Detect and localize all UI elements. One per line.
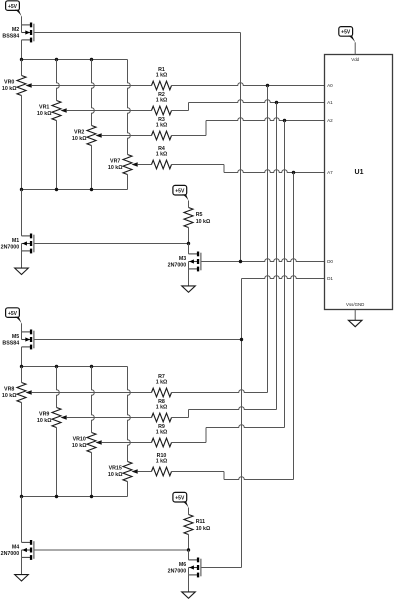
svg-text:R11: R11 bbox=[196, 519, 205, 525]
junction dot A2 bus bbox=[283, 119, 286, 122]
svg-text:10 kΩ: 10 kΩ bbox=[72, 136, 87, 142]
svg-text:+5V: +5V bbox=[341, 30, 351, 36]
ground at U1 bbox=[348, 320, 362, 326]
wire VR2 bottom lead bbox=[91, 146, 93, 190]
resistor R10 1 k bbox=[152, 453, 172, 476]
svg-text:+5V: +5V bbox=[8, 311, 18, 317]
svg-text:10 kΩ: 10 kΩ bbox=[37, 418, 52, 424]
svg-text:D1: D1 bbox=[327, 276, 333, 281]
wire R11 to M4 gate node bbox=[188, 535, 190, 551]
svg-text:VR7: VR7 bbox=[110, 159, 120, 165]
wire VR7 bottom lead bbox=[127, 175, 129, 190]
svg-text:M3: M3 bbox=[179, 256, 186, 262]
svg-text:1 kΩ: 1 kΩ bbox=[156, 123, 168, 129]
transistor M1 2N7000 (N-MOSFET) bbox=[1, 234, 34, 254]
junction dots on pot supply bus bbox=[20, 58, 93, 61]
node M4 gate junction bbox=[187, 548, 190, 551]
resistor R7 1 k bbox=[152, 374, 172, 397]
svg-text:A1: A1 bbox=[327, 100, 333, 105]
svg-text:10 kΩ: 10 kΩ bbox=[196, 219, 211, 225]
wire M1 source to ground bbox=[21, 251, 23, 268]
wire R3 step to U1 A2 bbox=[172, 135, 207, 137]
resistor R5 10 k bbox=[184, 208, 211, 228]
wire M5 gate to D1 bus bbox=[34, 339, 241, 341]
+5V power flag for M2 bbox=[6, 1, 20, 11]
wire VR8 wiper to R7 bbox=[34, 392, 152, 394]
wire D0 from M3 gate to U1 bbox=[201, 259, 324, 262]
wire VR9 top lead bbox=[57, 367, 60, 408]
wire A1 vertical bus bbox=[276, 103, 278, 410]
potentiometer VR8 10 k bbox=[2, 383, 34, 403]
wire R9 step to A2 bus bbox=[172, 442, 207, 444]
wire A7 vertical bus bbox=[293, 173, 295, 480]
ground at M1 bbox=[15, 268, 29, 274]
junction dot A7 bus bbox=[292, 171, 295, 174]
ground at M4 bbox=[15, 575, 29, 581]
junction dot A1 bus bbox=[275, 101, 278, 104]
wire VR15 bottom lead bbox=[127, 482, 129, 497]
wire M4 gate node to M6 drain bbox=[188, 550, 190, 560]
svg-text:U1: U1 bbox=[355, 169, 364, 176]
transistor M2 BSS84 (P-MOSFET) bbox=[2, 23, 33, 43]
svg-text:M5: M5 bbox=[12, 334, 19, 340]
+5V power flag for R11 bbox=[173, 492, 187, 502]
wire VR0 top lead bbox=[21, 60, 23, 76]
svg-text:A7: A7 bbox=[327, 170, 333, 175]
svg-text:VR0: VR0 bbox=[4, 80, 14, 86]
wire +5V to R11 bbox=[188, 508, 190, 515]
svg-text:A2: A2 bbox=[327, 118, 333, 123]
node M1 gate junction bbox=[187, 242, 190, 245]
wire +5V to U1 Vdd bbox=[354, 42, 356, 54]
svg-text:M6: M6 bbox=[179, 562, 186, 568]
wire M5 drain to pot bus bbox=[21, 347, 23, 367]
svg-text:10 kΩ: 10 kΩ bbox=[108, 165, 123, 171]
wire R8 step to A1 bus bbox=[172, 417, 189, 419]
svg-text:2N7000: 2N7000 bbox=[1, 245, 20, 251]
resistor R2 1 k bbox=[152, 92, 172, 115]
wire R4 step to U1 A7 bbox=[172, 164, 225, 166]
potentiometer VR2 10 k bbox=[72, 126, 104, 146]
node D0 / M2 gate junction bbox=[239, 260, 242, 263]
wire A0 vertical bus bbox=[267, 86, 269, 393]
wire U1 Vss to ground bbox=[354, 310, 356, 321]
svg-text:VR8: VR8 bbox=[4, 387, 14, 393]
wire R7 to A0 bus bbox=[172, 390, 268, 393]
svg-text:M2: M2 bbox=[12, 27, 19, 33]
svg-text:Vss/GND: Vss/GND bbox=[346, 302, 364, 307]
svg-text:M1: M1 bbox=[12, 238, 19, 244]
svg-text:+5V: +5V bbox=[175, 495, 185, 501]
wire R1 to U1 A0 bbox=[172, 83, 325, 86]
wire +5V to R5 bbox=[188, 201, 190, 208]
wire M6 source to ground bbox=[188, 575, 190, 592]
wire +5V to M2 source bbox=[21, 16, 23, 25]
svg-text:BSS84: BSS84 bbox=[2, 34, 19, 40]
wire pot supply bus bbox=[22, 366, 128, 368]
svg-text:1 kΩ: 1 kΩ bbox=[156, 73, 168, 79]
svg-text:BSS84: BSS84 bbox=[2, 341, 19, 347]
wire M3 source to ground bbox=[188, 269, 190, 286]
wire VR8 bottom lead bbox=[21, 403, 23, 497]
potentiometer VR15 10 k bbox=[108, 462, 140, 482]
svg-text:1 kΩ: 1 kΩ bbox=[156, 380, 168, 386]
wire VR9 wiper to R8 bbox=[69, 417, 152, 419]
wire R5 to M1 gate node bbox=[188, 228, 190, 244]
potentiometer VR0 10 k bbox=[2, 76, 34, 96]
wire M1 gate node to M3 drain bbox=[188, 244, 190, 254]
wire VR10 wiper to R9 bbox=[104, 442, 152, 444]
node D1 / M5 gate junction bbox=[240, 338, 243, 341]
svg-text:10 kΩ: 10 kΩ bbox=[72, 443, 87, 449]
wire VR1 top lead bbox=[57, 60, 60, 101]
svg-text:M4: M4 bbox=[12, 544, 19, 550]
wire VR0 wiper to R1 bbox=[34, 85, 152, 87]
svg-text:1 kΩ: 1 kΩ bbox=[156, 152, 168, 158]
wire pot supply bus bbox=[22, 59, 128, 61]
transistor M5 BSS84 (P-MOSFET) bbox=[2, 330, 33, 350]
IC U1 bbox=[325, 55, 393, 310]
svg-text:VR15: VR15 bbox=[109, 466, 122, 472]
resistor R3 1 k bbox=[152, 117, 172, 140]
wire VR1 bottom lead bbox=[56, 121, 58, 190]
potentiometer VR9 10 k bbox=[37, 408, 69, 428]
svg-text:10 kΩ: 10 kΩ bbox=[108, 472, 123, 478]
svg-text:2N7000: 2N7000 bbox=[1, 551, 20, 557]
junction dots on pot supply bus bbox=[20, 365, 93, 368]
svg-text:1 kΩ: 1 kΩ bbox=[156, 98, 168, 104]
transistor M6 2N7000 (N-MOSFET) bbox=[168, 558, 201, 578]
+5V power flag for M5 bbox=[6, 308, 20, 318]
svg-text:+5V: +5V bbox=[8, 4, 18, 10]
ground at M3 bbox=[182, 286, 196, 292]
svg-text:1 kΩ: 1 kΩ bbox=[156, 430, 168, 436]
svg-text:Vdd: Vdd bbox=[351, 57, 359, 62]
svg-text:10 kΩ: 10 kΩ bbox=[196, 526, 211, 532]
wire M2 gate to D0 bus bbox=[34, 32, 240, 34]
wire pot ground-side bus bbox=[22, 496, 128, 498]
resistor R11 10 k bbox=[184, 515, 211, 535]
resistor R1 1 k bbox=[152, 67, 172, 90]
wire M1 gate bbox=[34, 243, 188, 245]
wire VR2 top lead bbox=[92, 60, 95, 126]
wire D1 from U1 to bottom half bbox=[242, 276, 325, 279]
svg-text:1 kΩ: 1 kΩ bbox=[156, 405, 168, 411]
wire pot bus to M1 drain bbox=[21, 190, 23, 236]
transistor M3 2N7000 (N-MOSFET) bbox=[168, 252, 201, 272]
wire M4 source to ground bbox=[21, 557, 23, 574]
svg-text:10 kΩ: 10 kΩ bbox=[2, 393, 17, 399]
potentiometer VR10 10 k bbox=[72, 433, 104, 453]
+5V power flag for R5 bbox=[173, 185, 187, 195]
potentiometer VR7 10 k bbox=[108, 155, 140, 175]
wire VR2 wiper to R3 bbox=[104, 135, 152, 137]
svg-text:+5V: +5V bbox=[175, 188, 185, 194]
+5V power flag for U1 Vdd bbox=[339, 27, 353, 37]
potentiometer VR1 10 k bbox=[37, 101, 69, 121]
wire R2 step to U1 A1 bbox=[172, 110, 189, 112]
svg-text:2N7000: 2N7000 bbox=[168, 569, 187, 575]
junction dot A0 bus bbox=[266, 84, 269, 87]
svg-text:10 kΩ: 10 kΩ bbox=[2, 86, 17, 92]
resistor R4 1 k bbox=[152, 146, 172, 169]
svg-text:R5: R5 bbox=[196, 212, 203, 218]
wire VR7 top lead bbox=[128, 60, 131, 155]
svg-text:VR1: VR1 bbox=[39, 105, 49, 111]
resistor R9 1 k bbox=[152, 424, 172, 447]
wire VR10 bottom lead bbox=[91, 453, 93, 497]
wire A2 vertical bus bbox=[284, 121, 286, 428]
junction dots on pot ground-side bus bbox=[20, 495, 93, 498]
wire pot ground-side bus bbox=[22, 189, 128, 191]
ground at M6 bbox=[182, 592, 196, 598]
wire VR0 bottom lead bbox=[21, 96, 23, 190]
resistor R8 1 k bbox=[152, 399, 172, 422]
wire M4 gate bbox=[34, 549, 188, 551]
svg-text:VR10: VR10 bbox=[73, 437, 86, 443]
svg-text:VR9: VR9 bbox=[39, 412, 49, 418]
wire +5V to M5 source bbox=[21, 323, 23, 332]
svg-text:D0: D0 bbox=[327, 259, 333, 264]
wire M6 gate to D1 bus bbox=[201, 567, 241, 569]
wire pot bus to M4 drain bbox=[21, 497, 23, 543]
svg-text:1 kΩ: 1 kΩ bbox=[156, 459, 168, 465]
wire VR9 bottom lead bbox=[56, 428, 58, 497]
wire VR8 top lead bbox=[21, 367, 23, 383]
svg-text:VR2: VR2 bbox=[74, 130, 84, 136]
wire VR1 wiper to R2 bbox=[69, 110, 152, 112]
wire VR7 wiper to R4 bbox=[140, 164, 152, 166]
wire VR15 wiper to R10 bbox=[140, 471, 152, 473]
wire R10 step to A7 bus bbox=[172, 471, 225, 473]
svg-text:A0: A0 bbox=[327, 83, 333, 88]
junction dots on pot ground-side bus bbox=[20, 188, 93, 191]
wire VR15 top lead bbox=[128, 367, 131, 462]
svg-text:2N7000: 2N7000 bbox=[168, 263, 187, 269]
wire M2 drain to pot bus bbox=[21, 40, 23, 60]
transistor M4 2N7000 (N-MOSFET) bbox=[1, 540, 34, 560]
svg-text:10 kΩ: 10 kΩ bbox=[37, 111, 52, 117]
wire VR10 top lead bbox=[92, 367, 95, 433]
